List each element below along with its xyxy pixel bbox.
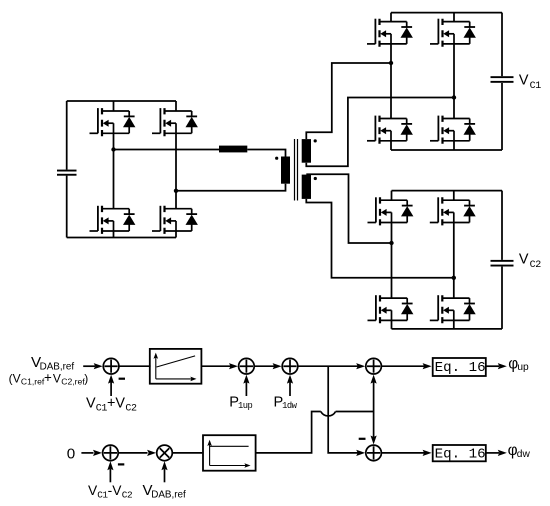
wire block1 to A2 with arrow xyxy=(201,365,231,367)
svg-text:C2: C2 xyxy=(530,260,542,271)
feedback arrow VC1+VC2 into A1 xyxy=(110,382,112,396)
block Eq.16 lower xyxy=(433,445,486,461)
label VDAB,ref row2 xyxy=(143,482,187,500)
node bridge2 legB midpoint xyxy=(452,95,456,99)
MOSFET S3 (bridge1 bottom-left) xyxy=(90,206,136,234)
label VC1 xyxy=(519,73,541,93)
MOSFET S12 (bridge3 bottom-right) xyxy=(430,295,476,323)
svg-text:+: + xyxy=(44,370,52,385)
minus sign at A5 top input xyxy=(359,438,366,440)
transformer primary winding xyxy=(281,157,290,184)
secondary 1 polarity dot xyxy=(314,139,317,142)
minus sign at A1 xyxy=(119,378,125,380)
svg-text:C1,ref: C1,ref xyxy=(21,377,45,387)
node bridge3 legA midpoint xyxy=(389,241,393,245)
crossover hop xyxy=(321,412,336,416)
label P1dw xyxy=(274,394,298,411)
wire A3 to A4 with arrow xyxy=(298,365,359,367)
svg-text:C1: C1 xyxy=(96,403,108,414)
wire input arrow row2 xyxy=(81,452,93,454)
capacitor C2 branch xyxy=(491,191,514,329)
svg-text:C1: C1 xyxy=(530,81,542,92)
MOSFET S7 (bridge2 bottom-left) xyxy=(367,116,413,144)
bridge 1 leg A wire segments xyxy=(113,101,115,238)
summing junction A1 xyxy=(103,358,119,374)
MOSFET S1 (bridge1 top-left) xyxy=(90,108,136,136)
bridge 2 bottom rail xyxy=(391,149,502,151)
MOSFET S5 (bridge2 top-left) xyxy=(367,19,413,47)
svg-text:C2: C2 xyxy=(125,403,137,414)
node bridge1 legA midpoint xyxy=(111,147,115,151)
wire M1 to controller block 2 xyxy=(172,452,202,454)
svg-text:DAB,ref: DAB,ref xyxy=(151,489,186,500)
MOSFET S2 (bridge1 top-right) xyxy=(152,108,198,136)
bridge 3 top rail xyxy=(392,190,503,192)
svg-text:dw: dw xyxy=(517,449,531,460)
svg-text:V: V xyxy=(86,396,96,412)
wire hop to vertical balancing line xyxy=(336,411,374,413)
summing junction A3 xyxy=(282,358,298,374)
output arrow phi_dw xyxy=(486,452,499,454)
svg-text:(V: (V xyxy=(9,371,21,385)
label phi_up xyxy=(508,355,529,373)
arrow P1up into A2 xyxy=(245,382,247,396)
secondary 2 polarity dot xyxy=(314,177,317,180)
wire inductor to primary top xyxy=(247,150,285,157)
svg-text:1dw: 1dw xyxy=(282,401,298,411)
bridge 1 bottom rail xyxy=(67,237,176,239)
branch wire down to lower sum A5 xyxy=(328,366,358,453)
svg-text:1up: 1up xyxy=(238,401,253,411)
transformer secondary 2 winding xyxy=(302,175,311,199)
controller block 2 (limiter characteristic) xyxy=(203,435,256,471)
label VC2 xyxy=(519,251,541,271)
MOSFET S8 (bridge2 bottom-right) xyxy=(430,116,476,144)
primary polarity dot xyxy=(275,157,278,160)
label VC1-VC2 xyxy=(88,483,132,501)
svg-text:+V: +V xyxy=(107,396,125,412)
svg-text:V: V xyxy=(519,73,529,89)
minus sign at B1 xyxy=(118,463,124,465)
bridge 1 leg B wire segments xyxy=(175,101,177,238)
wire secondary1 top to bridge2 legA mid xyxy=(306,63,391,139)
transformer core xyxy=(295,139,298,201)
MOSFET S9 (bridge3 top-left) xyxy=(368,197,414,225)
arrow P1dw into A3 xyxy=(289,382,291,396)
wire secondary2 bottom to bridge3 legB mid xyxy=(306,199,454,278)
bridge 2 leg A wire segments xyxy=(390,13,392,150)
output arrow phi_up xyxy=(486,365,499,367)
multiplier M1 xyxy=(157,445,173,461)
label VDAB,ref (row1 input) xyxy=(31,354,74,372)
wire A4 to Eq16 upper xyxy=(381,365,424,367)
wire legB mid to primary bottom xyxy=(176,184,286,191)
summing junction A5 (lower output) xyxy=(366,445,382,461)
label VC1+VC2 xyxy=(86,396,137,415)
MOSFET S4 (bridge1 bottom-right) xyxy=(152,206,198,234)
bridge 2 leg B wire segments xyxy=(453,13,455,150)
bridge 3 bottom rail xyxy=(392,328,503,330)
bridge 3 leg A wire segments xyxy=(391,191,393,329)
feedback arrow VC1-VC2 into B1 xyxy=(109,469,111,483)
wire secondary1 bottom to bridge2 legB mid xyxy=(306,98,454,167)
node bridge1 legB midpoint xyxy=(174,189,178,193)
bridge 3 leg B wire segments xyxy=(453,191,455,329)
arrow VDAB,ref into M1 xyxy=(164,469,166,483)
wire A5 to Eq16 lower xyxy=(381,452,424,454)
wire B1 to multiplier with arrow xyxy=(118,452,148,454)
svg-text:C2: C2 xyxy=(122,489,132,500)
summing junction A4 (upper output) xyxy=(366,358,382,374)
balancing signal vertical double arrow xyxy=(373,381,375,438)
MOSFET S6 (bridge2 top-right) xyxy=(430,19,476,47)
svg-text:C2,ref: C2,ref xyxy=(61,377,85,387)
wire input arrow row1 xyxy=(83,365,95,367)
controller block 1 (ramp characteristic) xyxy=(150,349,202,384)
svg-text:Eq. 16: Eq. 16 xyxy=(435,446,486,462)
wire A2 to A3 with arrow xyxy=(254,365,275,367)
label (VC1,ref+VC2,ref) xyxy=(9,370,89,387)
svg-text:0: 0 xyxy=(67,446,75,463)
svg-text:V: V xyxy=(53,371,61,385)
MOSFET S11 (bridge3 bottom-left) xyxy=(368,295,414,323)
svg-text:-V: -V xyxy=(108,483,123,498)
summing junction B1 xyxy=(103,445,119,461)
node bridge3 legB midpoint xyxy=(452,276,456,280)
svg-text:): ) xyxy=(84,371,88,385)
node bridge2 legA midpoint xyxy=(389,61,393,65)
wire secondary2 top to bridge3 legA mid xyxy=(306,174,391,243)
series inductor L xyxy=(219,146,247,153)
transformer secondary 1 winding xyxy=(302,139,311,163)
capacitor C1 branch xyxy=(491,13,514,150)
svg-text:up: up xyxy=(517,362,529,373)
block Eq.16 upper xyxy=(433,358,486,376)
bridge 1 top rail xyxy=(67,100,176,102)
summing junction A2 xyxy=(239,358,255,374)
input capacitor Cin left plate-pair xyxy=(57,101,77,238)
wire legA mid to inductor xyxy=(114,149,220,151)
bridge 2 top rail xyxy=(391,12,502,14)
wire A1 to controller block xyxy=(119,365,151,367)
svg-text:Eq. 16: Eq. 16 xyxy=(435,360,486,376)
label P1up xyxy=(229,394,252,411)
svg-text:V: V xyxy=(519,251,529,267)
label phi_dw xyxy=(508,442,531,460)
MOSFET S10 (bridge3 top-right) xyxy=(430,197,476,225)
wire block2 output up and over to balancing line xyxy=(256,412,321,453)
